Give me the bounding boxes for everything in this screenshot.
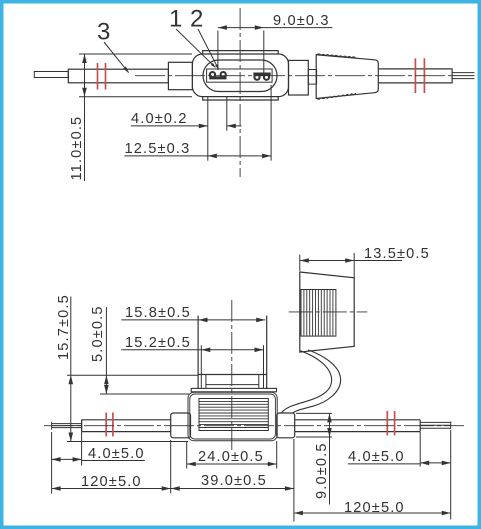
top view: fuse slot rectangle — [207, 69, 273, 82]
svg-text:12.5±0.3: 12.5±0.3 — [125, 141, 191, 157]
cap grip serrations bottom — [317, 93, 356, 99]
bottom view: tower inner walls — [205, 375, 207, 389]
arrowheads 13.5 — [300, 258, 309, 263]
bottom view: holder body outer — [188, 392, 277, 441]
dimension line 120±5.0 left — [52, 488, 171, 490]
bottom view: wire break marks (red) left — [106, 413, 113, 437]
svg-text:9.0±0.5: 9.0±0.5 — [314, 442, 330, 499]
svg-text:3: 3 — [97, 19, 110, 46]
ext: tower top going left — [67, 374, 198, 376]
top view: vertical centerline — [239, 8, 241, 177]
top view: horizontal centerline — [135, 75, 452, 77]
arrowheads 9.0 dim — [218, 25, 227, 30]
svg-text:13.5±0.5: 13.5±0.5 — [364, 246, 430, 262]
bottom view: insulated wire left — [81, 420, 83, 432]
dimension line 9.0±0.5 — [329, 413, 331, 504]
dim 15.7 line — [70, 297, 72, 442]
extension line 11.0 top — [79, 53, 192, 55]
bottom view: top cap plate — [191, 388, 276, 391]
wire from cap (S-curve) — [281, 351, 332, 413]
terminal clip right — [253, 74, 270, 80]
svg-text:15.2±0.5: 15.2±0.5 — [125, 335, 191, 351]
arrowheads 24.0 — [187, 462, 196, 467]
bottom view: wire break marks (red) right — [387, 411, 394, 435]
bottom view: ribbed grip (horizontal ribs) — [199, 399, 268, 431]
svg-text:15.8±0.5: 15.8±0.5 — [125, 305, 191, 321]
arrowheads 15.7 — [69, 375, 74, 384]
dim 9.0 extension lines — [296, 412, 332, 414]
leader for label 1 — [176, 29, 215, 67]
cap centerline — [289, 311, 368, 313]
dim 5.0 line — [105, 307, 107, 394]
dimension line 4.0±5.0 right — [420, 462, 451, 464]
dim 13.5 extension lines — [299, 255, 301, 271]
top view: insulated wire left — [68, 69, 168, 83]
top view: neck between collar and cap — [308, 70, 316, 85]
svg-text:120±5.0: 120±5.0 — [344, 500, 405, 516]
bottom view: body vertical centerline — [231, 300, 233, 450]
svg-text:1: 1 — [169, 6, 182, 33]
bottom view: left strain-relief collar — [171, 413, 191, 438]
arrowheads 5.0 — [104, 375, 109, 384]
bottom view: insulated wire right — [295, 419, 421, 421]
arrowheads 4.0 left — [52, 457, 61, 462]
extension line 11.0 bottom — [79, 96, 192, 98]
cap ribbed band — [301, 290, 336, 337]
svg-text:24.0±0.5: 24.0±0.5 — [198, 449, 264, 465]
top view: bare wire strands right — [452, 72, 474, 74]
top view: rubber cap (boot) — [316, 55, 378, 99]
dimension line 15.8±0.5 — [121, 319, 265, 321]
arrowheads 4.0 dim — [199, 124, 208, 129]
svg-text:5.0±0.5: 5.0±0.5 — [90, 305, 106, 362]
svg-text:4.0±5.0: 4.0±5.0 — [348, 449, 405, 465]
svg-text:39.0±0.5: 39.0±0.5 — [201, 473, 267, 489]
svg-text:11.0±0.5: 11.0±0.5 — [69, 116, 85, 181]
extension line terminal left edge — [207, 97, 209, 161]
svg-text:9.0±0.3: 9.0±0.3 — [273, 13, 330, 29]
top view: right collar — [289, 60, 309, 95]
dimension line 120±5.0 right — [294, 512, 451, 514]
arrowheads 39.0 — [171, 486, 180, 491]
bottom view: detached cap — [300, 272, 354, 352]
top view: insulated wire right — [379, 69, 452, 83]
arrowheads 120 right — [294, 511, 303, 516]
bottom view: wire centerline — [44, 425, 464, 427]
dimension line 39.0±0.5 — [171, 488, 294, 490]
top view: wire break marks (red) right — [415, 58, 424, 93]
svg-text:4.0±0.2: 4.0±0.2 — [131, 111, 188, 127]
ext lines bottom row — [51, 432, 53, 494]
leader arrow tips — [211, 63, 216, 68]
dimension line 11.0±0.5 — [84, 54, 86, 181]
leader for label 2 — [198, 29, 219, 69]
svg-text:2: 2 — [190, 6, 203, 33]
dimension line 4.0±5.0 left — [52, 458, 82, 460]
arrowheads 4.0 right — [420, 461, 429, 466]
arrowheads 15.8 — [199, 318, 208, 323]
leader for label 3 — [104, 42, 129, 73]
dimension line 15.2±0.5 — [121, 349, 263, 351]
svg-text:15.7±0.5: 15.7±0.5 — [56, 294, 72, 360]
svg-text:4.0±5.0: 4.0±5.0 — [88, 446, 145, 462]
arrowheads 12.5 dim — [208, 154, 217, 159]
cap grip serrations top — [317, 54, 356, 58]
bottom view: holder body inner outline — [190, 394, 276, 439]
top view: holder body outline — [192, 54, 288, 97]
top view: body top lip — [203, 51, 279, 54]
top view: wire break marks (red) left — [98, 63, 106, 90]
top view: bare wire lead left — [34, 72, 68, 78]
dimension line 24.0±0.5 — [187, 463, 277, 465]
arrowheads 9.0 — [327, 413, 332, 422]
extension line terminal right edge — [226, 97, 228, 131]
extension line right terminal outer — [270, 85, 272, 161]
arrowheads 15.2 — [201, 348, 210, 353]
top view: left collar of holder — [168, 62, 192, 89]
terminal clip left — [209, 72, 226, 78]
bottom view: right strain-relief collar — [277, 413, 295, 438]
arrowheads 11.0 dim — [82, 54, 87, 63]
dimension line 4.0±0.2 — [131, 125, 208, 127]
arrowheads 120 left — [52, 486, 61, 491]
bottom view: bare lead strands left — [52, 423, 82, 425]
dimension line 12.5±0.3 — [124, 155, 271, 157]
svg-text:120±5.0: 120±5.0 — [81, 474, 142, 490]
bottom view: socket tower walls — [197, 316, 199, 389]
dimension line 9.0±0.3 — [218, 27, 333, 29]
top view: body bottom lip — [203, 97, 279, 100]
bottom view: tower top edge — [198, 374, 267, 376]
ext: body bottom going left — [67, 441, 188, 443]
top view: inner oval recess — [203, 60, 277, 92]
ext: body top going left — [100, 393, 189, 395]
extension lines for 9.0 dim — [217, 31, 219, 71]
bottom view: bare lead right — [420, 421, 451, 423]
dimension line 13.5±0.5 — [300, 260, 402, 262]
